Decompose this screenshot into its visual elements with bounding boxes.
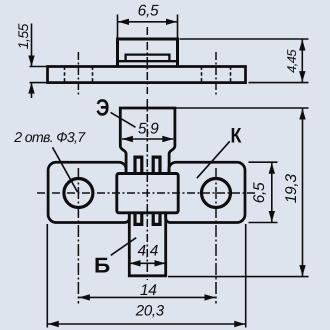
side view: hidden hole edge left-b	[92, 67, 94, 83]
side view: cap inner upper step	[126, 55, 170, 62]
dim 4,4: dimension line	[130, 262, 166, 264]
svg-text:6,5: 6,5	[138, 3, 159, 20]
dim 6,5 right: arrows	[269, 163, 275, 222]
leader K	[197, 141, 230, 178]
svg-text:Б: Б	[94, 253, 110, 277]
top view: right hole centerline / 14-extension	[215, 168, 217, 304]
dim 19,3: arrows	[299, 109, 305, 277]
dim 1,55 left: dimension lines	[31, 24, 33, 99]
dim 1,55 left: arrows	[28, 56, 34, 94]
dim 14: dimension line	[78, 296, 216, 298]
svg-text:5,9: 5,9	[138, 121, 159, 138]
top view: plate left part	[48, 162, 129, 222]
top view: pin window top-right	[153, 157, 160, 173]
dim 6,5 top: arrows	[118, 19, 177, 25]
dim 6,5 top: dimension line	[118, 21, 178, 23]
dim 6,5 right: dimension line	[271, 162, 273, 222]
svg-text:4,4: 4,4	[137, 242, 158, 259]
svg-text:2 отв. Ф3,7: 2 отв. Ф3,7	[13, 130, 86, 146]
top view: center body square	[117, 174, 178, 213]
top view: base lead outline	[129, 213, 165, 276]
dim 19,3: dimension line	[302, 108, 304, 277]
dim 20,3: dimension line	[47, 323, 245, 325]
side view: hidden hole edge left-a	[64, 67, 66, 83]
svg-text:К: К	[231, 125, 242, 148]
top view: vertical centerline	[146, 99, 148, 280]
dim 20,3: extension lines	[47, 224, 245, 328]
side view: centerline left hole	[77, 52, 79, 97]
top view: pin window bottom-left	[135, 213, 142, 225]
dim 5,9: dimension line	[122, 138, 173, 140]
dim 5,9: arrows	[122, 136, 173, 142]
svg-text:20,3: 20,3	[135, 303, 165, 320]
svg-text:Э: Э	[96, 94, 109, 120]
dim 4,4: arrows	[130, 260, 166, 266]
svg-text:4,45: 4,45	[284, 49, 299, 73]
top view: pin window bottom-right	[153, 213, 160, 225]
leader E	[111, 112, 136, 127]
side view: centerline vertical middle	[146, 27, 148, 94]
side view: cap (body)	[118, 39, 178, 67]
dim 4,45 right: dimension line	[301, 39, 303, 83]
dim 1,55 left: extension lines	[30, 67, 48, 83]
svg-text:14: 14	[140, 282, 157, 299]
svg-text:1,55: 1,55	[15, 23, 31, 49]
dim 14: arrows	[79, 294, 216, 300]
side view: hidden hole edge right-b	[230, 67, 232, 83]
leader hole note	[53, 147, 78, 192]
top view: emitter tab outline	[120, 108, 175, 173]
side view: flange bar	[48, 67, 246, 83]
top view: left mounting hole	[64, 179, 93, 208]
dim 20,3: arrows	[48, 321, 245, 327]
top view: right mounting hole	[202, 179, 231, 208]
svg-text:6,5: 6,5	[251, 182, 268, 203]
top view: horizontal centerline	[37, 192, 256, 194]
dim 4,45 right: arrows	[299, 40, 305, 83]
dim 6,5 right: extension lines	[249, 162, 278, 222]
side view: centerline right hole	[215, 52, 217, 97]
leader B	[111, 238, 136, 256]
top view: left hole centerline / 14-extension	[77, 168, 79, 304]
side view: hidden hole edge right-a	[201, 67, 203, 83]
top view: plate right part	[166, 162, 245, 222]
dim 4,45 right: extension lines	[180, 39, 309, 83]
top view: pin window top-left	[135, 157, 142, 173]
dim 6,5 top: extension lines	[118, 15, 178, 39]
dim 19,3: extension lines	[168, 108, 309, 277]
svg-text:19,3: 19,3	[283, 174, 300, 204]
side view: cap inner lower step	[118, 60, 178, 62]
